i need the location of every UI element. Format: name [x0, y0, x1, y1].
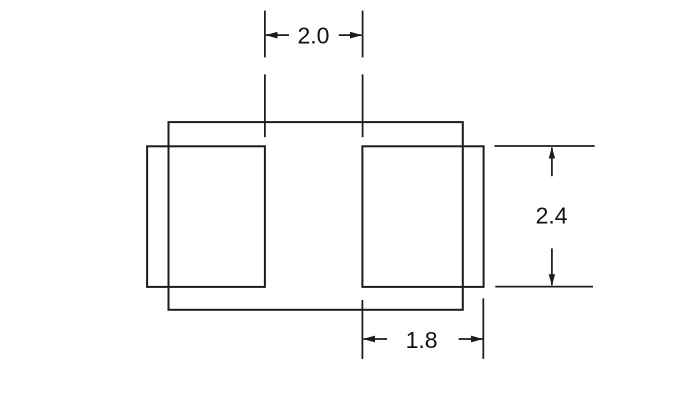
- dimension 2.0 right arrow: [339, 32, 362, 39]
- left pad: [147, 146, 265, 287]
- dimension 2.0 left extension line: [264, 11, 266, 138]
- dimension 2.4 bottom extension line: [495, 286, 593, 288]
- svg-text:2.4: 2.4: [536, 203, 568, 229]
- dimension 2.4 lower arrow: [549, 248, 555, 285]
- dimension 1.8 right arrow: [459, 336, 483, 343]
- right pad: [362, 146, 483, 287]
- svg-text:1.8: 1.8: [406, 327, 438, 353]
- dimension 1.8 left arrow: [363, 336, 387, 343]
- svg-text:2.0: 2.0: [298, 23, 330, 49]
- dimension 1.8 right extension line: [482, 298, 484, 359]
- dimension 2.0 right extension line: [362, 11, 364, 138]
- dimension 1.8 left extension line: [361, 300, 363, 359]
- component body outline: [169, 122, 463, 310]
- dimension 2.0 left arrow: [266, 32, 290, 39]
- dimension 2.4 top extension line: [494, 145, 594, 147]
- dimension 2.4 upper arrow: [549, 147, 555, 176]
